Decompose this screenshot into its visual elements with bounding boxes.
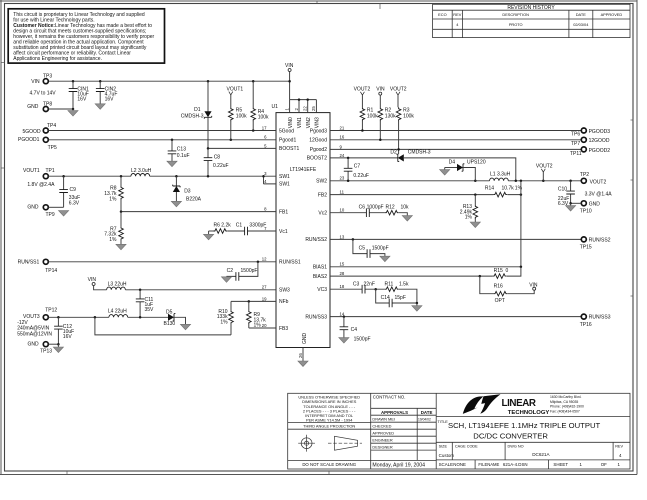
svg-text:Pgood3: Pgood3 bbox=[310, 128, 327, 134]
svg-text:TP16: TP16 bbox=[580, 322, 592, 328]
ground (U1 pin 26) bbox=[298, 361, 308, 367]
ground (R6) bbox=[204, 234, 214, 240]
svg-text:VIN0: VIN0 bbox=[288, 117, 294, 128]
node VIN net label (L3) bbox=[88, 277, 107, 290]
capacitor C12 bbox=[54, 317, 74, 344]
testpoint TP3 VIN bbox=[30, 74, 57, 97]
resistor R14 bbox=[485, 186, 523, 197]
svg-text:L3 22uH: L3 22uH bbox=[108, 282, 127, 288]
svg-text:R12: R12 bbox=[386, 204, 395, 210]
svg-text:TP4: TP4 bbox=[47, 123, 56, 129]
svg-text:22: 22 bbox=[303, 106, 308, 111]
ground (C13) bbox=[167, 161, 177, 167]
ground (R12) bbox=[402, 216, 412, 222]
svg-text:C4: C4 bbox=[351, 327, 358, 333]
svg-text:1500pF: 1500pF bbox=[372, 245, 389, 251]
svg-text:VIN2: VIN2 bbox=[306, 117, 312, 128]
capacitor C4 bbox=[340, 317, 371, 343]
svg-text:100k: 100k bbox=[403, 113, 414, 119]
wire VOUT1/SW1 line bbox=[48, 175, 268, 177]
svg-text:PGOOD1: PGOOD1 bbox=[18, 137, 40, 143]
wire PGOOD1 line to pin 6 bbox=[48, 139, 268, 141]
svg-text:FB1: FB1 bbox=[279, 209, 288, 215]
svg-text:BIAS1: BIAS1 bbox=[313, 265, 327, 271]
resistor R10 bbox=[217, 301, 234, 335]
ground (CIN1/TP8) bbox=[68, 109, 78, 116]
node VOUT2 net label (above R3) bbox=[390, 87, 407, 108]
svg-text:GND: GND bbox=[302, 333, 308, 345]
resistor R3 bbox=[396, 107, 414, 154]
svg-text:10: 10 bbox=[340, 208, 345, 213]
wire FB1 line to pin 8 bbox=[121, 211, 268, 213]
svg-text:26: 26 bbox=[298, 353, 303, 358]
resistor R1 bbox=[360, 107, 378, 130]
svg-text:20: 20 bbox=[262, 323, 267, 328]
ground (C2) bbox=[221, 277, 231, 283]
contract / approvals column bbox=[372, 395, 432, 469]
testpoint TP9 GND bbox=[27, 204, 63, 218]
U1 left pin stubs bbox=[264, 131, 277, 329]
svg-text:1500pF: 1500pF bbox=[354, 336, 371, 342]
svg-text:FILENAME: FILENAME bbox=[478, 462, 499, 467]
svg-text:L2 3.0uH: L2 3.0uH bbox=[131, 168, 152, 174]
wire Pgood3 line pin 21 to TP6 bbox=[338, 130, 581, 132]
wire TP8 to CIN1 bbox=[48, 108, 73, 110]
svg-text:VOUT1: VOUT1 bbox=[23, 168, 40, 174]
svg-text:TP13: TP13 bbox=[40, 348, 52, 354]
svg-text:1%: 1% bbox=[109, 237, 117, 243]
svg-text:C7: C7 bbox=[354, 164, 361, 170]
wire NFb line to pin 19 bbox=[231, 300, 268, 302]
wire SW2/VOUT2 line pin 23 to TP2 bbox=[338, 180, 581, 182]
svg-text:LT1941EFE: LT1941EFE bbox=[290, 167, 317, 173]
node VIN net label (above R2) bbox=[376, 87, 385, 108]
svg-text:TECHNOLOGY: TECHNOLOGY bbox=[508, 410, 550, 416]
svg-text:3300pF: 3300pF bbox=[249, 223, 266, 229]
svg-text:TP15: TP15 bbox=[580, 245, 592, 251]
svg-text:0.22uF: 0.22uF bbox=[353, 173, 369, 179]
svg-text:1000pF: 1000pF bbox=[367, 204, 384, 210]
U1 right pin names bbox=[305, 128, 327, 320]
resistor R6 / capacitor C1 on Vc1 bbox=[209, 223, 268, 236]
svg-text:VIN: VIN bbox=[31, 79, 40, 85]
testpoint TP10 GND bbox=[569, 201, 600, 215]
node VOUT1 net label (above R5) bbox=[227, 86, 244, 107]
svg-text:19/04/02: 19/04/02 bbox=[418, 417, 431, 421]
resistor R2 bbox=[378, 107, 396, 140]
testpoint TP7 12GOOD bbox=[571, 137, 610, 147]
title text bbox=[438, 420, 624, 467]
svg-text:C2: C2 bbox=[227, 268, 234, 274]
svg-text:1%: 1% bbox=[515, 186, 523, 192]
svg-text:DWG NO: DWG NO bbox=[508, 445, 524, 449]
svg-text:25: 25 bbox=[311, 106, 316, 111]
svg-text:Pgood2: Pgood2 bbox=[310, 147, 327, 153]
svg-text:GND: GND bbox=[28, 341, 40, 347]
wire VOUT2 node to BIAS1 bbox=[520, 181, 522, 267]
svg-text:CMDSH-3: CMDSH-3 bbox=[408, 150, 431, 156]
svg-text:VC3: VC3 bbox=[317, 287, 327, 293]
svg-text:C3: C3 bbox=[353, 281, 360, 287]
svg-text:DRAWN MEI: DRAWN MEI bbox=[372, 417, 395, 422]
svg-text:1.8V @2.4A: 1.8V @2.4A bbox=[27, 182, 55, 188]
svg-text:1.5k: 1.5k bbox=[399, 281, 409, 287]
op IC U1 LT1941EFE body bbox=[272, 104, 331, 348]
svg-text:SHEET: SHEET bbox=[553, 462, 568, 467]
svg-text:D1: D1 bbox=[194, 107, 201, 113]
svg-text:CAGE CODE: CAGE CODE bbox=[455, 444, 478, 448]
U1 left pin numbers bbox=[262, 125, 267, 328]
testpoint TP8 GND bbox=[27, 101, 52, 111]
capacitor C7 bbox=[344, 158, 369, 181]
svg-text:PGOOD3: PGOOD3 bbox=[589, 129, 611, 135]
svg-text:APPROVED: APPROVED bbox=[601, 12, 623, 17]
svg-text:10.7k: 10.7k bbox=[502, 186, 515, 192]
testpoint TP2 VOUT2 bbox=[580, 172, 612, 198]
title block bbox=[288, 393, 630, 469]
svg-text:Pgood1: Pgood1 bbox=[279, 138, 296, 144]
svg-text:BIAS2: BIAS2 bbox=[313, 274, 327, 280]
svg-text:02/03/04: 02/03/04 bbox=[573, 22, 589, 27]
svg-text:16V: 16V bbox=[63, 334, 73, 340]
svg-text:RUN/SS1: RUN/SS1 bbox=[18, 260, 40, 266]
svg-text:R15: R15 bbox=[494, 268, 503, 274]
svg-text:APPROVED: APPROVED bbox=[372, 431, 394, 436]
svg-text:Milpitas, CA 95035: Milpitas, CA 95035 bbox=[550, 400, 578, 404]
svg-text:TP7: TP7 bbox=[571, 141, 580, 147]
testpoint TP6 PGOOD3 bbox=[571, 128, 610, 138]
svg-text:R14: R14 bbox=[485, 186, 494, 192]
svg-text:DATE: DATE bbox=[421, 410, 433, 415]
wire VOUT3 line bbox=[48, 316, 168, 318]
svg-text:DESCRIPTION: DESCRIPTION bbox=[502, 12, 529, 17]
svg-text:PGOOD2: PGOOD2 bbox=[589, 148, 611, 154]
svg-text:4: 4 bbox=[619, 453, 622, 458]
svg-text:4.7V to 14V: 4.7V to 14V bbox=[30, 91, 57, 97]
svg-text:UPS120: UPS120 bbox=[467, 160, 486, 166]
svg-text:L4 22uH: L4 22uH bbox=[108, 309, 127, 315]
svg-text:R16: R16 bbox=[494, 284, 503, 290]
svg-text:R11: R11 bbox=[385, 281, 394, 287]
diode D2 CMDSH-3 bbox=[390, 150, 430, 162]
diode D4 UPS120 bbox=[445, 160, 486, 181]
svg-text:1%: 1% bbox=[220, 320, 228, 326]
svg-text:18: 18 bbox=[340, 284, 345, 289]
resistor R8 bbox=[104, 176, 123, 211]
U1 pin names VIN0-VIN3 bbox=[288, 117, 321, 128]
inductor L2 3.0uH bbox=[131, 168, 152, 176]
svg-text:U1: U1 bbox=[272, 104, 279, 110]
node VIN net label (R16) bbox=[529, 282, 538, 290]
svg-text:NFb: NFb bbox=[279, 299, 289, 305]
svg-text:SW2: SW2 bbox=[316, 179, 327, 185]
svg-text:SCH, LT1941EFE 1.1MHz TRIPLE: SCH, LT1941EFE 1.1MHz TRIPLE OUTPUT bbox=[448, 421, 601, 430]
svg-text:OF: OF bbox=[601, 462, 607, 467]
svg-text:BOOST1: BOOST1 bbox=[279, 146, 300, 152]
svg-text:REV: REV bbox=[615, 445, 623, 449]
svg-text:C14: C14 bbox=[381, 295, 390, 301]
ground (C10) bbox=[566, 206, 576, 212]
svg-text:TP1: TP1 bbox=[46, 168, 55, 174]
U1 top VIN pin stubs and bus bbox=[290, 98, 317, 112]
svg-text:DATE: DATE bbox=[576, 12, 586, 17]
svg-text:SW1: SW1 bbox=[279, 174, 290, 180]
svg-text:3.3V @1.4A: 3.3V @1.4A bbox=[585, 192, 613, 198]
svg-text:16V: 16V bbox=[77, 96, 87, 102]
svg-text:TP8: TP8 bbox=[43, 101, 52, 107]
svg-text:C6: C6 bbox=[359, 204, 366, 210]
U1 right pin numbers bbox=[340, 125, 345, 316]
svg-text:0: 0 bbox=[506, 268, 509, 274]
svg-text:B220A: B220A bbox=[186, 197, 202, 203]
svg-text:1630 McCarthy Blvd.: 1630 McCarthy Blvd. bbox=[550, 395, 582, 399]
svg-text:ENGINEER: ENGINEER bbox=[372, 438, 393, 443]
svg-text:THIRD ANGLE PROJECTION: THIRD ANGLE PROJECTION bbox=[303, 423, 355, 428]
svg-text:Vc1: Vc1 bbox=[279, 229, 288, 235]
testpoint TP15 RUN/SS2 bbox=[580, 237, 611, 251]
ground (C12/TP13) bbox=[53, 347, 63, 353]
svg-text:12GOOD: 12GOOD bbox=[589, 138, 610, 144]
svg-text:17: 17 bbox=[262, 125, 267, 130]
svg-text:C13: C13 bbox=[177, 147, 186, 153]
ground (C5) bbox=[380, 256, 390, 262]
wire RUN/SS2 line pin 13 to TP15 bbox=[338, 238, 581, 240]
svg-text:DC/DC CONVERTER: DC/DC CONVERTER bbox=[473, 432, 548, 441]
svg-text:1%: 1% bbox=[465, 215, 473, 221]
node VIN net label (top) bbox=[285, 63, 294, 99]
resistor R5 bbox=[229, 107, 248, 140]
svg-text:100k: 100k bbox=[258, 115, 269, 121]
ground (C4) bbox=[339, 338, 349, 344]
resistor R4 bbox=[251, 81, 269, 130]
capacitor C11 bbox=[136, 290, 154, 318]
wire BOOST1 line to pin 5 bbox=[208, 147, 268, 149]
svg-text:FB2: FB2 bbox=[318, 192, 327, 198]
svg-text:VOUT2: VOUT2 bbox=[354, 87, 371, 93]
svg-text:TP6: TP6 bbox=[571, 132, 580, 138]
svg-text:BOOST2: BOOST2 bbox=[307, 156, 328, 162]
wire RUN/SS1 line to pin 12 bbox=[48, 261, 268, 263]
ground (D5) bbox=[180, 324, 190, 330]
svg-text:28: 28 bbox=[340, 271, 345, 276]
ground (C9/TP9) bbox=[59, 211, 69, 217]
U1 pin numbers 1 2 22 25 (top) bbox=[284, 106, 316, 111]
svg-text:15: 15 bbox=[340, 262, 345, 267]
svg-text:5Good: 5Good bbox=[279, 128, 294, 134]
node VOUT2 net label (output) bbox=[536, 164, 553, 181]
diode D3 B220A bbox=[173, 176, 202, 203]
inductor L1 3.3uH bbox=[490, 172, 511, 181]
ground (R13) bbox=[470, 222, 480, 228]
svg-text:11: 11 bbox=[340, 190, 345, 195]
inductor L4 22uH bbox=[108, 309, 128, 318]
svg-text:C8: C8 bbox=[214, 155, 221, 161]
svg-text:D2: D2 bbox=[390, 150, 397, 156]
svg-text:1%: 1% bbox=[109, 196, 117, 202]
svg-text:12: 12 bbox=[262, 257, 267, 262]
testpoint TP14 RUN/SS1 bbox=[18, 259, 58, 274]
svg-text:SW3: SW3 bbox=[279, 288, 290, 294]
svg-text:LINEAR: LINEAR bbox=[502, 398, 536, 409]
svg-text:APPROVALS: APPROVALS bbox=[381, 410, 408, 415]
svg-text:SCALE: SCALE bbox=[439, 462, 453, 467]
svg-text:6.3V: 6.3V bbox=[69, 201, 80, 207]
svg-text:CMDSH-3: CMDSH-3 bbox=[181, 113, 204, 119]
junction dots on VIN rail bbox=[72, 80, 291, 83]
wire FB2 line pin 11 to R14 bbox=[338, 194, 521, 196]
svg-text:23: 23 bbox=[340, 176, 345, 181]
svg-text:TP11: TP11 bbox=[570, 151, 582, 157]
svg-text:Custom: Custom bbox=[439, 453, 455, 458]
testpoint TP1 VOUT1 bbox=[23, 168, 55, 188]
svg-text:REVISION HISTORY: REVISION HISTORY bbox=[507, 5, 555, 11]
svg-text:SIZE: SIZE bbox=[439, 444, 448, 448]
capacitor C8 bbox=[204, 148, 229, 176]
svg-text:21: 21 bbox=[340, 125, 345, 130]
svg-text:10k: 10k bbox=[401, 204, 410, 210]
testpoint TP11 PGOOD2 bbox=[570, 147, 610, 157]
capacitor C3 / resistor R11 on VC3 bbox=[338, 281, 417, 303]
customer notice box bbox=[8, 9, 164, 63]
svg-text:CONTRACT NO.: CONTRACT NO. bbox=[373, 395, 406, 400]
svg-text:R6 2.2k: R6 2.2k bbox=[214, 223, 232, 229]
svg-text:RUN/SS1: RUN/SS1 bbox=[279, 260, 301, 266]
svg-text:TP14: TP14 bbox=[45, 268, 57, 274]
svg-text:VOUT2: VOUT2 bbox=[536, 164, 553, 170]
diode D1 CMDSH-3 bbox=[181, 81, 212, 148]
svg-text:SW1: SW1 bbox=[279, 182, 290, 188]
svg-text:Monday, April 19, 2004: Monday, April 19, 2004 bbox=[372, 462, 425, 468]
svg-text:19: 19 bbox=[262, 296, 267, 301]
node VOUT2 net label (above R1) bbox=[354, 87, 371, 108]
svg-text:621A-4.DSN: 621A-4.DSN bbox=[503, 462, 528, 467]
svg-text:FB3: FB3 bbox=[279, 326, 288, 332]
svg-text:VIN1: VIN1 bbox=[297, 117, 303, 128]
third angle projection symbol bbox=[298, 435, 362, 452]
svg-text:Applications Engineering for a: Applications Engineering for assistance. bbox=[13, 56, 102, 62]
svg-text:Fax: (408)434-0507: Fax: (408)434-0507 bbox=[550, 409, 580, 413]
svg-text:16: 16 bbox=[340, 135, 345, 140]
capacitor C5 bbox=[353, 239, 389, 258]
capacitor C2 bbox=[227, 262, 258, 281]
svg-text:0.22uF: 0.22uF bbox=[213, 163, 229, 169]
U1 right pin stubs bbox=[330, 131, 338, 317]
capacitor CIN1 bbox=[69, 81, 89, 109]
svg-text:GND: GND bbox=[589, 201, 601, 207]
capacitor C10 bbox=[558, 181, 575, 207]
wire BIAS1 line pin 15 bbox=[338, 266, 521, 268]
svg-text:5GOOD: 5GOOD bbox=[23, 129, 41, 135]
svg-text:C10: C10 bbox=[558, 186, 567, 192]
wire 5GOOD line to pin 17 bbox=[48, 130, 268, 132]
ground (R7) bbox=[116, 244, 126, 250]
wire BOOST2 line pin 24 to D2 bbox=[338, 157, 398, 159]
svg-text:Phone: (408)432-1900: Phone: (408)432-1900 bbox=[550, 405, 584, 409]
svg-text:550mA@12VIN: 550mA@12VIN bbox=[17, 332, 52, 338]
svg-text:130k: 130k bbox=[385, 113, 396, 119]
svg-text:NONE: NONE bbox=[453, 462, 466, 467]
svg-text:16V: 16V bbox=[105, 96, 115, 102]
capacitor CIN2 bbox=[96, 81, 117, 104]
wire 12Good line pin 16 to TP7 bbox=[338, 139, 581, 141]
testpoint TP16 RUN/SS3 bbox=[580, 314, 611, 328]
capacitor C9 bbox=[59, 176, 80, 207]
svg-text:RUN/SS2: RUN/SS2 bbox=[589, 237, 611, 243]
U1 GND pin 26 stub bbox=[298, 333, 308, 362]
svg-text:C5: C5 bbox=[359, 245, 366, 251]
svg-text:TP2: TP2 bbox=[580, 172, 589, 178]
svg-text:TP12: TP12 bbox=[45, 307, 57, 313]
resistor R13 bbox=[460, 195, 478, 222]
svg-text:L1 3.3uH: L1 3.3uH bbox=[490, 172, 511, 178]
svg-text:OPT: OPT bbox=[495, 298, 505, 304]
Linear Technology logo bbox=[463, 394, 584, 416]
svg-text:D4: D4 bbox=[449, 160, 456, 166]
svg-text:100k: 100k bbox=[367, 113, 378, 119]
testpoint TP13 GND bbox=[28, 341, 60, 354]
wire BIAS2 line pin 28 to R15 bbox=[338, 275, 493, 277]
wire VOUT3 sense branch bbox=[95, 317, 231, 335]
svg-text:TP3: TP3 bbox=[43, 74, 52, 80]
svg-text:GND: GND bbox=[27, 104, 39, 110]
resistor R16 OPT to VIN bbox=[480, 276, 534, 304]
svg-text:35V: 35V bbox=[145, 307, 155, 313]
svg-text:TITLE: TITLE bbox=[438, 420, 449, 424]
testpoint TP4 5GOOD bbox=[23, 123, 57, 135]
svg-text:TP9: TP9 bbox=[46, 212, 55, 218]
svg-text:D5: D5 bbox=[166, 309, 173, 315]
svg-text:27: 27 bbox=[262, 285, 267, 290]
svg-text:0.1uF: 0.1uF bbox=[177, 153, 190, 159]
capacitor C14 bbox=[376, 289, 418, 307]
svg-text:ECO: ECO bbox=[438, 12, 446, 17]
svg-text:DO NOT SCALE DRAWING: DO NOT SCALE DRAWING bbox=[302, 462, 356, 467]
svg-text:GND: GND bbox=[27, 204, 39, 210]
wire Pgood2 line pin 9 to TP11 bbox=[338, 148, 581, 150]
svg-text:Vc2: Vc2 bbox=[318, 211, 327, 217]
resistor R15 0 ohm bbox=[493, 267, 521, 279]
ground (CIN2) bbox=[95, 104, 105, 110]
capacitor C13 bbox=[168, 140, 190, 161]
svg-text:DESIGNER: DESIGNER bbox=[372, 445, 393, 450]
svg-text:B130: B130 bbox=[164, 321, 176, 327]
svg-text:REV: REV bbox=[453, 12, 461, 17]
svg-text:D3: D3 bbox=[184, 188, 191, 194]
wire FB3 line to pin 20 bbox=[249, 327, 268, 329]
svg-text:CHECKED: CHECKED bbox=[372, 424, 391, 429]
svg-text:15pF: 15pF bbox=[395, 295, 406, 301]
ground (C14) bbox=[412, 306, 422, 312]
svg-text:RUN/SS2: RUN/SS2 bbox=[305, 237, 327, 243]
capacitor C6 / resistor R12 on Vc2 bbox=[338, 204, 409, 217]
svg-text:TP10: TP10 bbox=[580, 209, 592, 215]
left spec box text bbox=[298, 395, 360, 467]
svg-text:RUN/SS3: RUN/SS3 bbox=[589, 315, 611, 321]
U1 left pin names bbox=[279, 128, 301, 331]
inductor L3 22uH bbox=[107, 282, 127, 290]
testpoint TP5 PGOOD1 bbox=[18, 137, 57, 151]
svg-text:PROTO: PROTO bbox=[509, 22, 523, 27]
revision history table bbox=[433, 4, 630, 37]
svg-text:PER ASME Y14.5M - 1994: PER ASME Y14.5M - 1994 bbox=[306, 418, 353, 423]
svg-text:13: 13 bbox=[340, 234, 345, 239]
svg-text:VOUT2: VOUT2 bbox=[590, 179, 607, 185]
svg-text:VOUT2: VOUT2 bbox=[390, 87, 407, 93]
svg-text:VIN: VIN bbox=[88, 277, 97, 283]
diode D5 B130 bbox=[164, 309, 186, 327]
wire VIN rail bbox=[48, 80, 289, 82]
ground (D3) bbox=[171, 201, 181, 207]
